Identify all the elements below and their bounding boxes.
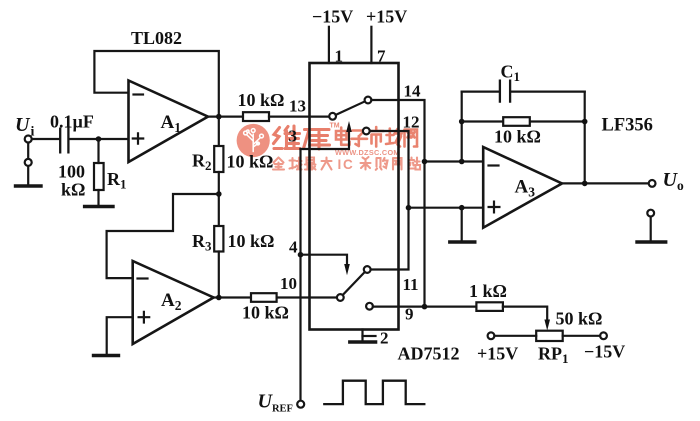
svg-text:−15V: −15V <box>312 7 353 27</box>
wire A3 plus input rail <box>409 207 484 209</box>
wire Uo ground terminal down <box>650 217 652 241</box>
switch S2 lever <box>343 272 365 295</box>
node Uo terminal <box>649 180 656 187</box>
svg-text:−15V: −15V <box>584 342 625 362</box>
node Uo ground terminal <box>647 210 654 217</box>
svg-text:Ui: Ui <box>15 114 34 140</box>
switch S2 open contact pin 9 <box>366 303 373 310</box>
node pin9 junction <box>422 304 428 310</box>
svg-text:AD7512: AD7512 <box>398 344 460 364</box>
arrow up to switch S1 <box>346 121 352 132</box>
ground under R1 <box>85 205 113 208</box>
ground bar pin 2 <box>350 340 376 343</box>
svg-text:10 kΩ: 10 kΩ <box>494 127 541 147</box>
wire between input terminals <box>27 143 29 159</box>
wire input to capacitor <box>32 138 59 140</box>
node feedback 10k tap left <box>459 119 465 125</box>
node R2/R3 junction <box>216 191 222 197</box>
switch S2 throw contact pin 11 <box>364 266 371 273</box>
svg-text:RP1: RP1 <box>538 344 569 367</box>
svg-text:TL082: TL082 <box>131 28 182 48</box>
wire A1 feedback loop output to minus input <box>94 51 218 117</box>
resistor 10k at A1 output <box>243 112 269 121</box>
A3 plus sign <box>489 202 500 213</box>
node pin4 junction on Uref riser <box>298 252 304 258</box>
wire junction down to R1 <box>97 139 99 163</box>
svg-text:11: 11 <box>403 275 419 294</box>
node -15V terminal of RP1 <box>600 332 607 339</box>
svg-text:10 kΩ: 10 kΩ <box>238 90 285 110</box>
node Ui lower terminal <box>25 159 32 166</box>
node A1 output junction <box>216 114 222 120</box>
wire feedback 10k branch <box>462 120 585 122</box>
svg-text:4: 4 <box>289 238 298 257</box>
watermark small row <box>273 157 420 170</box>
ground under A3 plus input <box>450 240 475 243</box>
op-amp A1 <box>129 81 209 163</box>
svg-text:13: 13 <box>289 97 306 116</box>
svg-text:2: 2 <box>380 329 389 348</box>
node A3 output feedback junction <box>582 181 588 187</box>
svg-text:LF356: LF356 <box>602 116 653 136</box>
node +15V terminal of RP1 <box>488 332 495 339</box>
resistor 10k feedback <box>503 117 530 126</box>
switch S2 pole contact pin 10 <box>337 294 344 301</box>
A2 plus sign <box>139 312 150 323</box>
svg-text:12: 12 <box>403 113 420 132</box>
A1 plus sign <box>133 133 143 143</box>
svg-text:14: 14 <box>404 82 422 101</box>
svg-text:50 kΩ: 50 kΩ <box>556 309 603 329</box>
wire pin 9 to 1k resistor <box>373 306 477 308</box>
ground under input <box>16 184 42 187</box>
wire 10k to pin 13 <box>269 115 329 117</box>
wire lower terminal to ground <box>27 166 29 184</box>
wire feedback right vertical <box>584 92 586 184</box>
ground pin 2 of block <box>361 330 363 342</box>
wire R2/R3 junction to A2 minus input <box>107 194 219 278</box>
potentiometer RP1 <box>536 331 563 341</box>
wire A1 output down to R2 <box>218 117 220 146</box>
node A2 output junction <box>216 295 222 301</box>
WATERMARK <box>237 123 420 173</box>
ground under Uo <box>637 240 666 243</box>
op-amp A2 <box>133 261 214 344</box>
svg-text:IC: IC <box>338 157 355 172</box>
resistor R2 <box>214 146 223 172</box>
switch S1 lever <box>336 101 365 115</box>
wire Uref riser <box>299 149 301 401</box>
svg-text:+15V: +15V <box>477 344 518 364</box>
wire plus rail to ground <box>461 208 463 241</box>
wire A3 output to Uo <box>562 182 649 184</box>
wire R2 to R3 <box>218 172 220 226</box>
svg-text:TM: TM <box>330 123 340 130</box>
node Ui input terminal <box>25 136 32 143</box>
ground under A2 <box>94 354 119 357</box>
node minus rail feedback tap <box>459 159 465 165</box>
svg-text:R1: R1 <box>107 169 127 192</box>
svg-text:3: 3 <box>289 127 298 146</box>
waveform Uref square wave <box>324 381 424 404</box>
wire feedback left vertical <box>461 92 463 162</box>
svg-text:1 kΩ: 1 kΩ <box>469 281 507 301</box>
node junction cap/R1 <box>96 136 102 142</box>
wire capacitor to A1 + input <box>70 138 129 140</box>
wire pin 12 to pin 11 via A3 plus node <box>370 131 409 270</box>
svg-text:7: 7 <box>377 47 386 66</box>
wire pin 1 supply <box>328 27 330 63</box>
switch S1 pole contact pin 13 <box>329 113 336 120</box>
svg-text:kΩ: kΩ <box>61 180 85 200</box>
node minus rail left <box>422 159 428 165</box>
svg-text:UREF: UREF <box>258 391 293 415</box>
IC AD7512 block <box>310 63 399 330</box>
wire 10k to pin 10 <box>277 296 337 298</box>
resistor R1 <box>94 163 104 190</box>
wire A2 plus input <box>107 317 133 354</box>
svg-text:+15V: +15V <box>366 7 407 27</box>
svg-text:R3: R3 <box>192 231 212 254</box>
switch S1 throw contact pin 14 <box>365 97 372 104</box>
pin 2 tick <box>363 335 376 337</box>
wire pin 14 to A3 minus node <box>371 100 424 307</box>
svg-text:10: 10 <box>280 274 297 293</box>
wire pin 3 control from Uref <box>301 128 350 150</box>
arrow down to RP1 wiper <box>544 320 550 331</box>
svg-text:0.1µF: 0.1µF <box>50 112 94 132</box>
wire 1k to RP1 wiper <box>503 307 547 325</box>
wire pin 7 supply <box>370 27 372 63</box>
wire RP1 to -15V terminal <box>563 335 600 337</box>
capacitor C1 <box>500 81 510 102</box>
wire C1 top branch <box>462 90 585 92</box>
svg-text:Uo: Uo <box>663 169 684 193</box>
resistor 10k at A2 output <box>251 293 277 302</box>
svg-text:1: 1 <box>335 47 344 66</box>
wire A3 minus input rail <box>425 160 484 162</box>
A3 minus sign <box>489 164 499 166</box>
wire A1 output <box>208 115 243 117</box>
node plus rail ground tap <box>459 205 465 211</box>
svg-text:10 kΩ: 10 kΩ <box>242 303 289 323</box>
resistor 1k <box>476 302 503 311</box>
capacitor 0.1uF <box>60 129 68 153</box>
node pin12 line on plus rail <box>406 205 412 211</box>
svg-text:R2: R2 <box>192 151 212 174</box>
arrow down to switch S2 <box>344 264 350 275</box>
svg-text:C1: C1 <box>501 62 521 85</box>
svg-text:100: 100 <box>58 162 85 182</box>
svg-text:9: 9 <box>405 305 414 324</box>
node Uref terminal <box>297 401 304 408</box>
resistor R3 <box>214 226 223 252</box>
node feedback right 10k tap <box>582 119 588 125</box>
op-amp A3 <box>483 147 562 228</box>
svg-text:10 kΩ: 10 kΩ <box>228 231 275 251</box>
wire R3 down to A2 output node <box>218 252 220 298</box>
wire A2 output <box>214 296 251 298</box>
wire pin 4 control <box>301 255 348 269</box>
A2 minus sign <box>138 277 148 279</box>
svg-text:10 kΩ: 10 kΩ <box>227 152 274 172</box>
wire R1 to ground <box>97 190 99 205</box>
A1 minus sign <box>134 93 144 95</box>
switch S1 open contact pin 12 <box>363 128 370 135</box>
wire +15V terminal to RP1 <box>494 335 536 337</box>
